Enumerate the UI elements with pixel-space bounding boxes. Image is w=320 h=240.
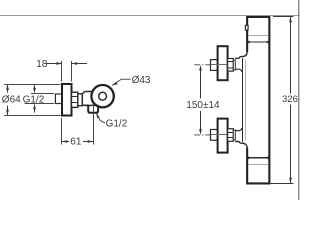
dimension 326 bottom extension line <box>271 183 294 185</box>
dimension 18 line right tail with arrow <box>72 63 87 65</box>
small cylinder <box>78 94 83 106</box>
top assembly nut <box>228 59 234 72</box>
bar cap clip bump top-left <box>245 25 248 30</box>
connection nut <box>72 92 78 107</box>
wall plate (escutcheon) <box>62 84 72 116</box>
nut facet line lower <box>72 102 78 104</box>
bar bottom gray line <box>249 164 269 166</box>
top assembly wall plate <box>218 46 228 80</box>
svg-text:Ø43: Ø43 <box>132 75 151 86</box>
bottom assembly centerline across plate <box>211 134 228 136</box>
bar cap joint dark line <box>248 41 269 43</box>
label Ø43 leader diagonal with arrow <box>113 79 122 85</box>
page border right gray line <box>298 0 300 200</box>
inlet stub G1/2 <box>55 94 62 104</box>
dimension Ø64 line lower stem with arrow <box>7 106 9 116</box>
dimension 326 upper stem with up arrow <box>290 17 292 94</box>
dimension 18 line left tail with arrow <box>46 63 62 65</box>
bottom assembly step ring <box>233 130 235 140</box>
top assembly step ring <box>233 60 235 70</box>
bar bottom joint dark line <box>248 157 269 159</box>
top assembly nut facet lower <box>228 67 234 69</box>
bottom assembly wall plate <box>218 119 228 153</box>
svg-text:Ø64: Ø64 <box>2 94 21 105</box>
lower elbow contour from bar to nut <box>235 142 247 150</box>
svg-text:G1/2: G1/2 <box>23 94 45 105</box>
dimension 61 extension line left <box>61 118 63 145</box>
svg-text:18: 18 <box>36 59 48 70</box>
dimension G1/2 upper stem with down arrow <box>34 85 36 89</box>
bottom assembly nut <box>228 129 234 142</box>
bottom assembly centerline dash-dot <box>194 134 219 136</box>
dimension 61 line right segment with arrow <box>83 141 94 143</box>
bottom assembly nut facet upper <box>228 131 234 133</box>
outlet stub (open top, rounded bottom) <box>88 105 98 113</box>
dimension 61 line left segment with arrow <box>62 141 70 143</box>
label G1/2 outlet leader <box>97 114 105 123</box>
dimension Ø64 extension line top <box>4 84 61 86</box>
dimension 18 extension line right <box>71 61 73 82</box>
bar cap gray line <box>249 35 269 37</box>
top elbow underside edge <box>235 69 242 72</box>
svg-text:G1/2: G1/2 <box>106 119 128 130</box>
vertical bar fill <box>247 17 269 183</box>
svg-text:61: 61 <box>70 136 82 147</box>
dimension 18 extension line left <box>61 61 63 82</box>
connecting pipe gray inner line <box>245 60 247 141</box>
top assembly nut facet upper <box>228 61 234 63</box>
svg-text:326: 326 <box>282 94 298 105</box>
dimension 150±14 lower stem with down arrow <box>200 111 202 130</box>
top assembly stub <box>211 60 218 71</box>
dimension Ø64 extension line bottom <box>4 115 61 117</box>
bottom assembly nut facet lower <box>228 137 234 139</box>
dimension 326 top extension line <box>273 16 294 18</box>
top elbow contour from bar to nut <box>235 51 247 59</box>
connecting pipe dark line between elbows <box>242 58 244 142</box>
nut facet line upper <box>72 96 78 98</box>
svg-text:150±14: 150±14 <box>186 100 220 111</box>
page background <box>0 0 300 200</box>
dimension 61 extension line right (through outlet centre) <box>93 104 95 145</box>
label Ø43 leader horizontal <box>121 78 130 80</box>
body bottom edge left of outlet <box>82 104 88 106</box>
bottom assembly stub <box>211 130 218 141</box>
dimension G1/2 lower stem with up arrow <box>34 109 36 113</box>
dimension 150±14 upper stem with up arrow <box>200 70 202 99</box>
lower elbow topside edge <box>235 128 242 131</box>
dimension G1/2 extension line top <box>31 93 54 95</box>
top assembly centerline across plate <box>211 64 228 66</box>
vertical bar outline (left edge hidden between elbows) <box>247 17 269 183</box>
valve body <box>82 92 95 106</box>
top assembly centerline dash-dot <box>194 64 219 66</box>
dimension 326 lower stem with down arrow <box>290 105 292 184</box>
knob inner circle <box>99 92 107 100</box>
knob circle Ø43 <box>91 85 113 107</box>
page border top gray line <box>0 15 300 17</box>
dimension Ø64 line upper stem with arrow <box>7 84 9 92</box>
dimension G1/2 extension line bottom <box>24 103 54 105</box>
